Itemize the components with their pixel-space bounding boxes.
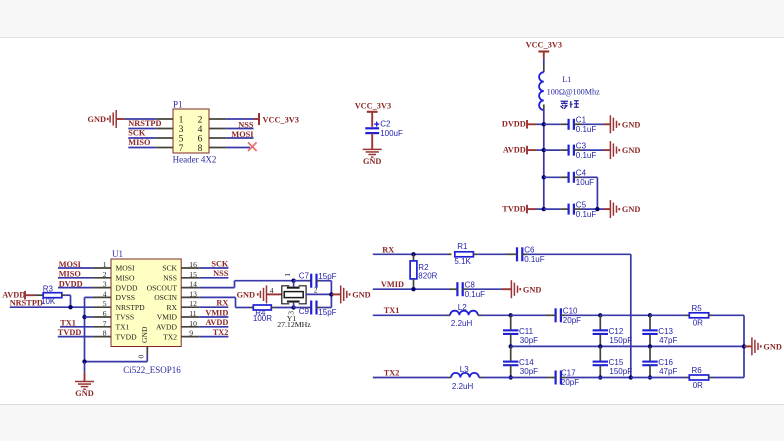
- power port TVDD: [502, 205, 527, 214]
- svg-text:11: 11: [189, 309, 197, 318]
- wire rail to GND: [84, 362, 86, 382]
- net label NRSTPD (U1): [10, 298, 43, 307]
- wire crystal bottom to C9: [294, 307, 312, 309]
- pin number 1 (Y1): [283, 273, 292, 277]
- pin stub U1.16: [181, 267, 199, 269]
- designator R3: [43, 284, 54, 293]
- net label SCK (U1 right): [211, 259, 229, 268]
- wire TX2 (U1 right): [199, 336, 228, 338]
- svg-text:DVSS: DVSS: [116, 293, 135, 302]
- ground symbol GND (header left): [88, 110, 125, 128]
- value 10K: [41, 297, 56, 306]
- wire C9 to right: [321, 307, 332, 309]
- pin name TX2: [163, 332, 177, 341]
- svg-text:GND: GND: [523, 285, 541, 294]
- svg-text:C2: C2: [380, 120, 391, 129]
- pin stub C14 top: [510, 346, 512, 361]
- junction right rail GND: [742, 344, 746, 348]
- value 27.12MHz: [277, 320, 311, 329]
- pin stub C8 right: [463, 288, 468, 290]
- capacitor C2: [365, 120, 403, 139]
- designator C9: [299, 307, 310, 316]
- pin stub C17 left: [551, 377, 556, 379]
- value 820R: [418, 272, 437, 281]
- svg-text:15: 15: [189, 270, 197, 279]
- pin number 3: [179, 125, 184, 135]
- junction TX2-C15: [598, 375, 602, 379]
- pin number 7: [179, 144, 184, 154]
- svg-text:VCC_3V3: VCC_3V3: [263, 115, 299, 124]
- pin name NSS: [163, 274, 177, 283]
- pin stub C7 right: [317, 280, 321, 282]
- pin stub C4 right: [574, 176, 582, 178]
- svg-text:R1: R1: [457, 242, 468, 251]
- designator L3: [460, 365, 469, 374]
- pin stub R5 right: [709, 314, 713, 316]
- junction TX1-C13: [648, 313, 652, 317]
- svg-text:AVDD: AVDD: [156, 323, 177, 332]
- wire TX2 to C17: [511, 377, 551, 379]
- wire AVDD to R3: [25, 294, 43, 296]
- resistor R5: [689, 313, 708, 318]
- svg-text:5: 5: [103, 299, 107, 308]
- capacitor C13: [642, 327, 677, 345]
- wire R6 to right rail: [713, 346, 745, 377]
- svg-text:MOSI: MOSI: [231, 130, 253, 139]
- pin name MOSI: [116, 264, 135, 273]
- pin number 3: [103, 280, 107, 289]
- svg-text:100uF: 100uF: [380, 129, 403, 138]
- wire NSS (U1 right): [199, 277, 228, 279]
- ground GND (VMID): [511, 280, 541, 298]
- capacitor C11: [503, 327, 538, 345]
- designator R4: [255, 308, 266, 317]
- svg-text:4: 4: [198, 125, 203, 135]
- wire C5 to GND: [582, 208, 611, 210]
- pin stub R4 right: [271, 307, 275, 309]
- pin stub U1.2: [93, 277, 111, 279]
- power port DVDD: [502, 120, 527, 129]
- pin number 12: [189, 299, 197, 308]
- svg-text:150pF: 150pF: [609, 336, 632, 345]
- pin stub C1 right: [574, 123, 582, 125]
- capacitor C2 plus sign: [374, 122, 379, 127]
- svg-text:MISO: MISO: [116, 274, 136, 283]
- junction TX2-C16: [648, 375, 652, 379]
- net label VMID (U1 right): [205, 308, 228, 317]
- net label TX2 (U1 right): [213, 328, 229, 337]
- svg-text:GND: GND: [140, 326, 149, 343]
- svg-text:C1: C1: [576, 116, 587, 125]
- pin number 15: [189, 270, 197, 279]
- wire VMID: [373, 288, 453, 290]
- wire RX: [373, 253, 452, 255]
- pin stub U1.3: [93, 287, 111, 289]
- svg-text:U1: U1: [112, 249, 123, 259]
- ground GND (antenna): [752, 337, 782, 355]
- designator L2: [458, 303, 467, 312]
- svg-text:0.1uF: 0.1uF: [576, 151, 597, 160]
- pin stub U1.11: [181, 316, 199, 318]
- pin number 4 (Y1): [270, 286, 274, 295]
- pin stub L2 right: [478, 314, 482, 316]
- capacitor C9: [311, 301, 316, 315]
- svg-text:15pF: 15pF: [318, 308, 336, 317]
- svg-text:20pF: 20pF: [561, 378, 579, 387]
- svg-text:C11: C11: [519, 327, 534, 336]
- svg-text:C7: C7: [299, 271, 310, 280]
- pin stub P1.4: [209, 128, 226, 130]
- net label MOSI: [231, 130, 253, 139]
- IC U1 body: [111, 259, 181, 347]
- svg-text:2: 2: [314, 286, 318, 295]
- designator P1: [173, 99, 183, 109]
- net label TX2: [384, 368, 400, 377]
- junction DVSS-TVSS: [82, 315, 86, 319]
- svg-text:TX2: TX2: [384, 368, 400, 377]
- pin name DVDD: [116, 283, 138, 292]
- ground GND (C3): [610, 141, 640, 159]
- comment Ci522_ESOP16: [123, 365, 181, 375]
- wire rail vertical: [543, 105, 545, 210]
- svg-text:VCC_3V3: VCC_3V3: [526, 41, 562, 50]
- svg-text:2.2uH: 2.2uH: [452, 382, 474, 391]
- pin stub C5 right: [574, 208, 582, 210]
- comment 磁珠: [561, 101, 579, 109]
- svg-text:R5: R5: [692, 304, 703, 313]
- wire TVDD port to rail: [527, 208, 544, 210]
- junction mid-C12: [598, 344, 602, 348]
- junction rail TVDD: [542, 207, 546, 211]
- pin name DVSS: [116, 293, 135, 302]
- svg-text:L1: L1: [562, 75, 571, 84]
- svg-text:GND: GND: [75, 389, 93, 398]
- ground GND (crystal right): [341, 285, 371, 303]
- svg-text:5.1K: 5.1K: [454, 257, 471, 266]
- junction mid-C13: [648, 344, 652, 348]
- svg-text:C10: C10: [563, 307, 578, 316]
- pin stub C6 right: [522, 253, 527, 255]
- pin stub U1.7: [93, 326, 111, 328]
- net label RX (U1 right): [216, 299, 228, 308]
- net label VMID: [381, 280, 404, 289]
- svg-text:6: 6: [103, 309, 107, 318]
- wire DVDD port to rail: [527, 123, 544, 125]
- svg-text:C3: C3: [576, 141, 587, 150]
- junction TX2-RXtap: [629, 375, 633, 379]
- wire C2 to GND: [371, 133, 373, 149]
- svg-text:12: 12: [189, 299, 197, 308]
- pin stub C12 top: [599, 315, 601, 330]
- wire R5 to right rail: [713, 315, 745, 346]
- svg-text:VMID: VMID: [157, 313, 178, 322]
- svg-text:GND: GND: [363, 157, 381, 166]
- wire NSS: [226, 128, 253, 130]
- wire C8 to GND: [467, 288, 511, 290]
- wire R1 to C6: [477, 253, 512, 255]
- capacitor C14: [503, 358, 538, 376]
- pin name GND (vertical): [140, 326, 149, 343]
- crystal pin 3 stub: [293, 303, 295, 308]
- svg-text:6: 6: [198, 135, 203, 145]
- svg-text:C13: C13: [658, 327, 673, 336]
- pin stub C17 right: [561, 377, 566, 379]
- svg-text:VMID: VMID: [381, 280, 404, 289]
- svg-text:0.1uF: 0.1uF: [576, 210, 597, 219]
- pin name MISO: [116, 274, 136, 283]
- svg-text:100R: 100R: [253, 314, 272, 323]
- pin name VMID: [157, 313, 178, 322]
- svg-text:30pF: 30pF: [520, 367, 538, 376]
- svg-text:TVDD: TVDD: [502, 205, 526, 214]
- svg-text:VCC_3V3: VCC_3V3: [355, 102, 391, 111]
- wire OSCOUT to crystal: [199, 281, 293, 288]
- designator R5: [692, 304, 703, 313]
- pin stub C8 left: [453, 288, 458, 290]
- pin number 5: [179, 135, 184, 145]
- net label SCK: [128, 128, 146, 137]
- junction crystal top: [291, 279, 295, 283]
- svg-text:DVDD: DVDD: [116, 283, 138, 292]
- wire MOSI (U1): [58, 267, 93, 269]
- pin stub R4 left: [250, 307, 254, 309]
- svg-text:0.1uF: 0.1uF: [576, 125, 597, 134]
- svg-text:0R: 0R: [693, 319, 703, 328]
- wire L2 to C11: [482, 314, 511, 316]
- svg-text:NRSTPD: NRSTPD: [10, 298, 43, 307]
- net label RX: [382, 246, 394, 255]
- svg-text:MOSI: MOSI: [116, 264, 135, 273]
- junction TX1-C11: [509, 313, 513, 317]
- svg-text:NRSTPD: NRSTPD: [128, 119, 161, 128]
- ground GND (C1): [610, 115, 640, 133]
- pin stub C9 right: [317, 307, 321, 309]
- wire C16 to R6: [650, 377, 689, 379]
- power port VCC_3V3 (header): [259, 113, 299, 125]
- wire TX1 (U1): [60, 326, 93, 328]
- pin stub U1.9: [181, 336, 199, 338]
- resistor R4: [253, 305, 271, 310]
- pin number 5: [103, 299, 107, 308]
- wire C13 to R5: [650, 314, 689, 316]
- wire C7 to right: [321, 281, 332, 308]
- pin stub P1.6: [209, 137, 226, 139]
- wire TX1: [373, 314, 450, 316]
- svg-text:NSS: NSS: [213, 269, 229, 278]
- resistor R1: [455, 252, 474, 257]
- svg-text:R6: R6: [692, 366, 703, 375]
- wire TX1 to C10: [511, 314, 551, 316]
- svg-text:GND: GND: [622, 146, 640, 155]
- svg-text:TVDD: TVDD: [116, 332, 138, 341]
- junction TX2-C14: [509, 375, 513, 379]
- junction rail DVDD: [542, 122, 546, 126]
- value 0R (R6): [693, 381, 703, 390]
- net label TX1 (U1): [60, 318, 76, 327]
- svg-text:8: 8: [103, 329, 107, 338]
- svg-text:8: 8: [198, 144, 203, 154]
- value 15pF (C7): [318, 272, 336, 281]
- wire C3 to GND: [582, 149, 611, 151]
- pin number 1: [179, 116, 184, 126]
- inductor L3: [451, 373, 479, 378]
- wire middle row: [511, 345, 744, 347]
- ground GND (crystal left): [237, 285, 267, 303]
- junction C4 drop: [595, 207, 599, 211]
- pin stub P1.7: [156, 147, 173, 149]
- designator R1: [457, 242, 468, 251]
- junction VMID-R2: [411, 287, 415, 291]
- value 5.1K: [454, 257, 471, 266]
- svg-text:GND: GND: [763, 343, 781, 352]
- svg-text:RX: RX: [166, 303, 177, 312]
- svg-text:NRSTPD: NRSTPD: [116, 303, 146, 312]
- net label DVDD (U1): [59, 279, 83, 288]
- junction rail C4: [542, 175, 546, 179]
- wire SCK: [128, 137, 156, 139]
- junction rail AVDD: [542, 148, 546, 152]
- pin stub U1.5: [93, 306, 111, 308]
- svg-text:TX2: TX2: [163, 332, 177, 341]
- pin name RX: [166, 303, 177, 312]
- pin stub P1.5: [156, 137, 173, 139]
- pin stub P1.1: [156, 118, 173, 120]
- svg-text:GND: GND: [622, 205, 640, 214]
- svg-text:47pF: 47pF: [659, 367, 677, 376]
- wire pin2 to VCC: [226, 118, 259, 120]
- junction RX-R2: [411, 252, 415, 256]
- pin number 3 (Y1): [286, 311, 295, 315]
- svg-text:DVDD: DVDD: [502, 120, 526, 129]
- svg-text:VMID: VMID: [205, 308, 228, 317]
- svg-text:150pF: 150pF: [609, 367, 632, 376]
- pin name TX1: [116, 323, 130, 332]
- pin stub U1.13: [181, 296, 199, 298]
- pin stub U1.6: [93, 316, 111, 318]
- pin name OSCOUT: [147, 283, 178, 292]
- wire rail to C5: [544, 208, 569, 210]
- capacitor C12: [593, 327, 633, 345]
- pin number 4: [103, 289, 107, 298]
- pin name TVDD: [116, 332, 138, 341]
- svg-text:OSCOUT: OSCOUT: [147, 283, 178, 292]
- pin stub C15 top: [599, 346, 601, 361]
- svg-text:2: 2: [198, 116, 203, 126]
- svg-text:13: 13: [189, 289, 197, 298]
- designator C17: [561, 369, 576, 378]
- svg-text:16: 16: [189, 260, 197, 269]
- crystal pin 2 stub: [306, 293, 331, 295]
- pin number 16: [189, 260, 197, 269]
- designator Y1: [287, 314, 297, 323]
- svg-text:4: 4: [103, 289, 107, 298]
- pin stub U1.12: [181, 306, 199, 308]
- crystal pin 1 stub: [293, 281, 295, 287]
- svg-text:C15: C15: [609, 358, 624, 367]
- svg-text:L3: L3: [460, 365, 469, 374]
- svg-text:10K: 10K: [41, 297, 56, 306]
- pin number 14: [189, 280, 197, 289]
- pin stub P1.8: [209, 147, 226, 149]
- pin number 2: [103, 270, 107, 279]
- pin stub C16 bottom: [649, 365, 651, 377]
- wire C4 to TVDD row: [582, 177, 598, 209]
- pin stub U1.0: [146, 347, 148, 356]
- svg-text:RX: RX: [216, 299, 228, 308]
- pin stub R3 right: [62, 294, 66, 296]
- pin stub P1.3: [156, 128, 173, 130]
- pin stub C15 bottom: [599, 365, 601, 377]
- comment Header 4X2: [173, 155, 217, 165]
- wire pin1: [125, 118, 157, 120]
- power port VCC_3V3 (rail): [526, 41, 562, 52]
- pin stub C11 top: [510, 315, 512, 330]
- svg-text:RX: RX: [382, 246, 394, 255]
- wire MISO: [128, 147, 156, 149]
- svg-text:C4: C4: [576, 169, 587, 178]
- ground GND (C5): [610, 200, 640, 218]
- resistor R6: [689, 375, 708, 380]
- svg-text:SCK: SCK: [162, 264, 177, 273]
- junction mid-C11: [509, 344, 513, 348]
- svg-text:1: 1: [179, 116, 184, 126]
- pin number 4: [198, 125, 203, 135]
- svg-text:C12: C12: [609, 327, 624, 336]
- pin stub C6 left: [512, 253, 517, 255]
- svg-text:0R: 0R: [693, 381, 703, 390]
- pin stub R6 right: [709, 377, 713, 379]
- svg-text:27.12MHz: 27.12MHz: [277, 320, 311, 329]
- svg-text:C5: C5: [576, 200, 587, 209]
- pin stub C12 bottom: [599, 334, 601, 346]
- capacitor C1: [569, 116, 597, 135]
- pin stub R2 bottom: [413, 279, 415, 289]
- wire VMID (U1 right): [199, 316, 228, 318]
- inductor L2: [450, 311, 478, 316]
- svg-text:NSS: NSS: [238, 121, 254, 130]
- svg-text:30pF: 30pF: [520, 336, 538, 345]
- svg-text:100Ω@100Mhz: 100Ω@100Mhz: [547, 87, 601, 96]
- svg-text:10: 10: [189, 319, 197, 328]
- pin name TVSS: [116, 313, 135, 322]
- pin name AVDD: [156, 323, 177, 332]
- svg-text:4: 4: [270, 286, 274, 295]
- wire AVDD port to rail: [527, 149, 544, 151]
- capacitor C15: [593, 358, 633, 376]
- svg-text:AVDD: AVDD: [205, 318, 228, 327]
- wire L3 to C14: [483, 377, 511, 379]
- net label TX1: [384, 306, 400, 315]
- pin number 6: [198, 135, 203, 145]
- svg-text:MISO: MISO: [128, 138, 151, 147]
- svg-text:R3: R3: [43, 284, 54, 293]
- pin stub U1.1: [93, 267, 111, 269]
- svg-text:Header 4X2: Header 4X2: [173, 155, 217, 165]
- wire OSCIN to R4: [199, 297, 249, 307]
- svg-text:P1: P1: [173, 99, 183, 109]
- wire TVDD (U1): [58, 336, 93, 338]
- capacitor C8: [457, 280, 485, 299]
- capacitor C6: [517, 246, 545, 265]
- svg-text:SCK: SCK: [128, 128, 146, 137]
- pin stub C10 left: [551, 314, 556, 316]
- pin stub L3 right: [479, 377, 483, 379]
- pin stub U1.10: [181, 326, 199, 328]
- junction TX1-C12: [598, 313, 602, 317]
- pin number 8: [198, 144, 203, 154]
- pin stub R1 right: [473, 253, 477, 255]
- pin stub U1.4: [93, 296, 111, 298]
